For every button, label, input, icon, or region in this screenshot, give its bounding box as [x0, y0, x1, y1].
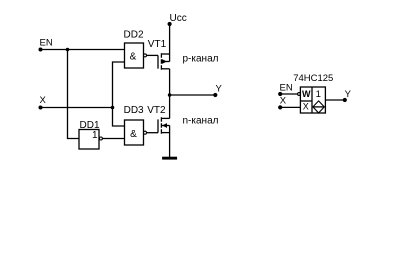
output terminal Y — [213, 84, 222, 98]
wire VT2 substrate and source to ground — [169, 126, 171, 158]
wire X to IC pin X — [280, 106, 300, 108]
wire IC output to terminal Y — [325, 99, 344, 101]
svg-text:&: & — [130, 52, 137, 63]
svg-text:X: X — [280, 96, 287, 107]
svg-text:EN: EN — [40, 38, 53, 49]
wire DD3 output to VT2 gate — [147, 132, 159, 134]
svg-text:Y: Y — [345, 89, 352, 100]
wire X junction to DD3 pin1 — [113, 108, 125, 127]
svg-text:Y: Y — [216, 84, 223, 95]
power terminal Ucc — [168, 13, 187, 26]
wire VT1 drain to node Y — [169, 69, 171, 95]
svg-text:&: & — [130, 129, 137, 140]
svg-text:p-канал: p-канал — [183, 54, 219, 65]
node X junction — [111, 106, 115, 110]
transistor VT2 n-channel — [147, 105, 169, 134]
inverter DD1 — [79, 120, 102, 149]
svg-text:n-канал: n-канал — [183, 115, 219, 126]
wire Ucc to VT1 source and substrate — [169, 24, 171, 62]
ground — [162, 157, 177, 160]
transistor VT1 p-channel — [148, 39, 170, 70]
pin bubble W — [298, 93, 301, 96]
output terminal Y (IC) — [343, 89, 352, 102]
svg-text:Ucc: Ucc — [170, 13, 187, 24]
svg-text:X: X — [40, 95, 47, 106]
wire DD1 output to DD3 pin2 — [102, 138, 124, 140]
svg-text:X: X — [303, 102, 309, 112]
svg-text:EN: EN — [280, 83, 293, 94]
wire X to X junction — [41, 107, 113, 109]
node Y junction — [168, 93, 172, 97]
svg-text:DD2: DD2 — [124, 30, 144, 41]
buffer U1 74HC125 body — [300, 87, 325, 113]
svg-text:1: 1 — [92, 130, 98, 141]
svg-text:74HC125: 74HC125 — [293, 73, 333, 84]
input terminal EN — [39, 38, 53, 52]
svg-text:VT2: VT2 — [147, 105, 166, 116]
wire node Y to terminal Y — [170, 94, 216, 96]
input terminal X (IC) — [278, 96, 287, 110]
svg-text:1: 1 — [316, 89, 321, 100]
svg-text:DD3: DD3 — [124, 105, 144, 116]
wire EN to DD2 pin1 — [41, 49, 125, 51]
node EN junction — [66, 48, 70, 52]
input terminal EN (IC) — [278, 83, 293, 97]
wire node Y to VT2 drain — [169, 95, 171, 118]
svg-text:VT1: VT1 — [148, 39, 167, 50]
wire EN to IC pin W — [280, 93, 297, 95]
input terminal X — [39, 95, 47, 109]
wire EN junction to DD1 input — [68, 50, 80, 139]
svg-text:W: W — [302, 89, 311, 99]
wire DD2 output to VT1 gate — [147, 54, 159, 56]
nand gate DD2 — [124, 30, 147, 69]
wire X junction to DD2 pin2 — [113, 62, 125, 108]
nand gate DD3 — [124, 105, 147, 145]
